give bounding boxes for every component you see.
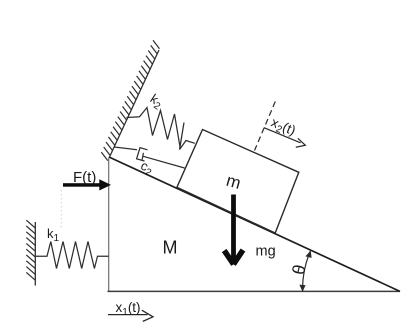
svg-text:F(t): F(t) — [73, 169, 96, 186]
wedge M base — [108, 290, 401, 292]
angle theta arc — [303, 251, 311, 291]
damper c2 rod (right) — [143, 156, 185, 168]
svg-text:k2: k2 — [146, 91, 166, 113]
inclined wall (upper-left hatched support) — [110, 50, 160, 157]
x1(t) arrow — [108, 310, 153, 321]
damper c2 rod (left) — [114, 147, 137, 150]
label k2 (rotated) — [146, 91, 166, 113]
damper c2 piston plate — [142, 153, 143, 160]
label c2 (rotated) — [137, 158, 156, 180]
svg-text:x2(t): x2(t) — [268, 115, 298, 141]
svg-text:M: M — [163, 237, 178, 257]
label theta (rotated) — [288, 263, 310, 277]
damper c2 cylinder — [137, 148, 148, 161]
wedge M left edge — [108, 158, 110, 292]
svg-text:θ: θ — [288, 263, 310, 277]
svg-text:c2: c2 — [137, 158, 156, 180]
gravity mg arrow — [224, 195, 243, 265]
spring k2 — [127, 108, 195, 150]
faint guide dotted line — [60, 190, 62, 228]
force F(t) arrow — [63, 179, 111, 190]
spring k1 — [35, 242, 108, 269]
dash-dot reference line through block — [255, 102, 276, 151]
svg-text:m: m — [224, 171, 243, 193]
wedge M incline — [109, 157, 400, 291]
left wall hatching — [26, 220, 35, 280]
svg-text:k1: k1 — [47, 226, 60, 244]
inclined wall hatching — [101, 40, 159, 160]
block m — [177, 130, 299, 234]
left wall (hatched support) — [34, 222, 36, 286]
svg-text:mg: mg — [256, 244, 276, 260]
arc arrowheads — [299, 251, 311, 292]
x2(t) arrow — [264, 128, 305, 148]
label x2(t) (rotated) — [268, 115, 298, 141]
